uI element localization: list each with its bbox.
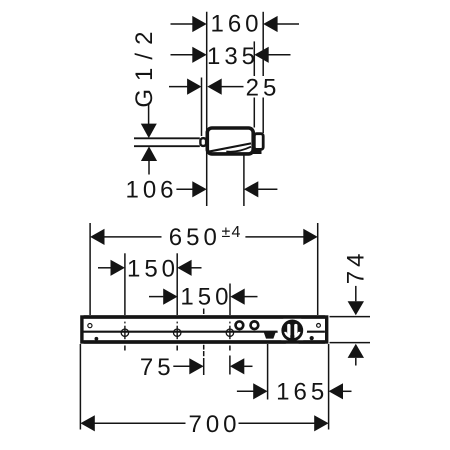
arrow 135 left: [192, 47, 206, 63]
centerline dashes: [203, 309, 205, 315]
arrow 74 up: [348, 344, 364, 358]
svg-text:75: 75: [140, 354, 175, 381]
arrow 75 right: [230, 358, 244, 374]
bar top band redraw: [84, 315, 326, 318]
arrow 150a left: [111, 260, 125, 276]
extension line 650-right: [317, 223, 319, 315]
screw 2: [174, 322, 181, 340]
screw1 lower dash: [124, 346, 126, 351]
knob inner white lower half: [284, 332, 300, 338]
arrow 160 left: [192, 16, 206, 32]
svg-text:160: 160: [210, 11, 262, 38]
svg-text:150: 150: [180, 284, 232, 311]
wire dim 75 tails: [173, 365, 190, 367]
outlet ring 1: [236, 321, 244, 329]
arrow 25 right: [207, 79, 221, 95]
wire G1/2 leader: [148, 104, 150, 127]
arrow 650 left: [90, 229, 104, 245]
svg-text:106: 106: [125, 177, 177, 204]
bar middle line: [83, 331, 325, 333]
body (top view): [207, 128, 253, 154]
spout trapezoid: [263, 331, 276, 338]
arrow 160 right: [263, 16, 277, 32]
bump left: [95, 337, 99, 341]
svg-text:±4: ±4: [222, 224, 242, 241]
bar bottom band redraw: [84, 340, 326, 343]
svg-text:74: 74: [342, 250, 369, 285]
wire dim 165 tails: [237, 390, 254, 392]
arrow 25 left: [187, 79, 201, 95]
arrow 700 left: [80, 415, 94, 431]
tab G1/2 (top view): [200, 138, 206, 146]
arrow 75 left: [189, 358, 203, 374]
knob slot left: [287, 324, 290, 336]
dot right: [310, 336, 314, 340]
wire dim 650 tails: [104, 236, 161, 238]
wire 74 tails: [355, 286, 357, 301]
arrow 106 left: [192, 181, 206, 197]
hole right: [317, 324, 321, 328]
svg-text:25: 25: [246, 74, 281, 101]
screw 3: [226, 322, 233, 340]
arrow 150a right: [177, 260, 191, 276]
svg-text:G1/2: G1/2: [131, 24, 158, 108]
svg-text:135: 135: [207, 43, 259, 70]
wire dim 106 tails: [176, 188, 193, 190]
svg-text:650: 650: [169, 224, 221, 251]
extension line 700-right: [328, 344, 330, 430]
hole left: [88, 324, 92, 328]
screw3 lower extension: [229, 346, 231, 351]
wire dim 160 tails: [171, 23, 193, 25]
arrow G1/2 up from below: [141, 146, 157, 161]
arrow 165 right: [329, 383, 343, 399]
svg-text:165: 165: [276, 379, 328, 406]
arrow G1/2 down: [141, 124, 157, 139]
arrow 150b right: [230, 289, 244, 305]
arrow 106 right: [244, 181, 258, 197]
arrow 650 right: [303, 229, 317, 245]
arrow 150b left: [163, 289, 177, 305]
arrow 74 down: [348, 301, 364, 315]
arrow 135 right: [254, 47, 268, 63]
knob (top view): [254, 134, 263, 150]
knob disc: [281, 320, 303, 342]
wire G1/2 lower leader: [148, 161, 150, 175]
pipe lines G1/2: [134, 137, 200, 139]
extension line 650-left: [89, 223, 91, 315]
extension line screw1: [124, 253, 126, 315]
extension line 74 top: [330, 316, 371, 318]
extension line 106-right: [243, 155, 245, 206]
screw2 lower dash: [176, 346, 178, 351]
extension line screw2: [176, 253, 178, 315]
lever lower curve (top view): [226, 147, 251, 152]
extension line 135-right: [253, 41, 255, 76]
extension line spout: [267, 344, 269, 400]
wire dim 25 tails: [169, 86, 188, 88]
extension line 160-right: [262, 12, 264, 76]
arrow 165 left: [253, 383, 267, 399]
extension line screw3: [229, 284, 231, 316]
lever top edge (top view): [208, 143, 251, 151]
arrow 700 right: [314, 415, 328, 431]
wire dim 150a tails: [98, 267, 111, 269]
knob center bar: [290, 323, 294, 341]
extension line 74 bottom: [330, 342, 371, 344]
wire dim 150b tails: [149, 296, 163, 298]
outlet ring 2: [251, 321, 259, 329]
svg-text:700: 700: [188, 411, 240, 438]
knob inner plug: [286, 324, 298, 336]
wire dim 135 tails: [171, 54, 193, 56]
knob slot right: [294, 324, 297, 336]
extension line 25-left: [201, 78, 203, 137]
extension line body-left/106-left: [206, 12, 208, 206]
bar outline (front view): [82, 317, 327, 342]
wire dim 700 tails: [94, 422, 185, 424]
screw 1: [121, 322, 128, 340]
extension line 700-left: [79, 344, 81, 430]
knob halo: [278, 316, 308, 346]
svg-text:150: 150: [127, 256, 179, 283]
foot under knob (top view): [253, 149, 262, 154]
